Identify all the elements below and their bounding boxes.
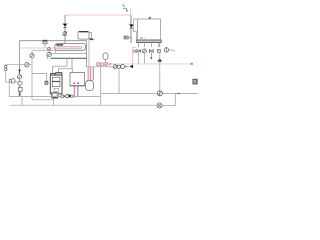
symbol under boiler 4 <box>157 49 160 52</box>
pump circle B <box>157 103 162 108</box>
wire: boiler control wire <box>134 19 138 43</box>
svg-text:B4 I: B4 I <box>140 36 145 40</box>
wire: vertical pipe x=65 <box>64 15 66 44</box>
solid fuel boiler <box>50 73 62 94</box>
wire: gray line y=66.8 <box>87 66 130 68</box>
wire: drops to pink line <box>139 53 145 64</box>
wire: inner corner <box>32 99 53 101</box>
wire: vertical x=119 down to L1 <box>118 68 120 93</box>
box under boiler on line1 <box>52 93 59 98</box>
dark marks after red row <box>110 63 111 65</box>
wire: pink line y=63.9 <box>95 63 193 65</box>
wire: vertical pipe x=131 below valve2 <box>130 15 132 43</box>
wire: blue drop from DHW tank <box>77 86 79 97</box>
wire: vertical x=89 from controller <box>88 40 90 67</box>
wire: y=82 horizontal <box>6 81 20 83</box>
pump circle A <box>157 91 162 96</box>
wire: L2 y=104.8 <box>10 104 157 106</box>
wire: left vertical pipe x=19.4 <box>18 41 20 97</box>
valve V2 actuator <box>124 36 129 39</box>
wire: verticals from y=58.3 down <box>67 58 72 69</box>
valve V2 black triangle <box>129 24 134 27</box>
wire: red verticals to capsule <box>88 67 90 80</box>
wire: vertical x=31 <box>31 51 33 100</box>
wire: red drop from DHW tank <box>73 86 75 97</box>
black left arrow <box>130 65 134 68</box>
red pump on pink line <box>48 48 51 51</box>
valve under boiler 1 (bowtie) <box>137 50 141 53</box>
black up arrow on pink <box>158 58 162 62</box>
valve under boiler 3 (bowtie) <box>149 50 153 53</box>
pump left of tank <box>48 49 50 53</box>
wire: gray line y=64.3 left <box>6 63 32 65</box>
wire: pink riser to boiler loop <box>133 47 136 66</box>
red box on pink <box>101 63 104 66</box>
DHW small tank <box>70 73 85 87</box>
wire: vertical x=100.7 <box>100 64 102 105</box>
valve V1 lower symbol <box>63 32 67 36</box>
wire: L1 y=93.4 <box>101 92 158 94</box>
sensor circle on left pipe <box>18 81 22 85</box>
wire: dark vertical to capsule <box>92 67 94 81</box>
red pump 2 on pink <box>104 62 107 65</box>
wire: far left vertical <box>5 64 7 82</box>
box on left pipe <box>19 87 23 91</box>
wire: x=53.5 vertical <box>53 96 55 105</box>
boiler B (gas boiler top right) <box>137 17 161 43</box>
radiator icon <box>193 79 197 84</box>
wire: vertical x=86.5 <box>86 41 88 67</box>
wire: top pink supply line <box>65 8 131 15</box>
wire: boiler top pipes <box>53 66 68 73</box>
valve V1 black triangle <box>63 24 68 27</box>
mark on left pipe bottom <box>19 93 22 95</box>
node: outdoor sensor icon <box>122 4 127 10</box>
pump circle 2 on y=66.8 <box>121 65 125 69</box>
boiler B bottom stubs <box>139 42 160 47</box>
mark left of valve row <box>133 50 135 52</box>
buffer tank (horizontal) <box>55 44 86 51</box>
wire: x=9.2 vertical <box>8 82 10 97</box>
flow arrow on left pipe <box>18 70 21 73</box>
node: small box on pipe <box>43 40 47 44</box>
wire: line y=53.4 under tank <box>51 52 87 54</box>
pink end blob (radiator supply) <box>191 63 193 65</box>
wire: pink line y=48 <box>20 47 58 49</box>
small marks before arrow <box>125 66 126 68</box>
pump on left pipe <box>18 75 22 79</box>
wire: line1 y=96.6 <box>9 96 101 98</box>
wire: gray pipe top edge y=40.7 <box>19 40 86 42</box>
pump circle x=31 <box>30 54 34 58</box>
wire: line under tank y=50.7 <box>32 50 56 52</box>
rounded box above tank (controller) <box>78 32 94 41</box>
flue sensor box left of boiler <box>32 73 46 81</box>
box on y=66.8 <box>118 65 121 68</box>
pump circle on y=64.3 <box>25 63 29 67</box>
wire: x=22 vertical <box>21 97 23 106</box>
vertical capsule vessel <box>86 80 94 90</box>
wire: vertical x=159.8 from boiler area to circle A <box>159 53 161 91</box>
pump with motor far left <box>11 79 15 83</box>
red pump 1 on pink <box>96 62 100 66</box>
pump P-dhw circle right <box>164 48 168 52</box>
wire: dark line y=58.3 <box>51 57 87 59</box>
valve circles on far-left pipe <box>5 65 7 67</box>
wire: right loop <box>162 93 175 105</box>
pumps on line1 right of box <box>61 95 64 98</box>
pump circle 1 on y=66.8 <box>113 65 117 69</box>
expansion vessel top <box>103 53 108 62</box>
wire: tank bottom stub <box>55 50 57 53</box>
pump under boiler 2 <box>142 49 146 53</box>
